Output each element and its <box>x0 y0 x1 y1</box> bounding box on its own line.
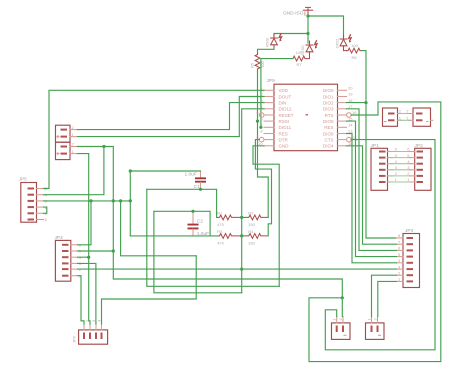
JP9 pin 14 RES <box>324 123 353 131</box>
JP3 pin 6 <box>397 246 414 251</box>
bottom connector A pin 1 <box>332 317 337 333</box>
wire ASSOC LED to R7 <box>307 54 310 59</box>
battery1 pin 1 <box>57 132 78 138</box>
wire branch row to JP3 p5 riser <box>121 201 197 256</box>
wire DOUT net JP9 p2 to battery1 p1 <box>78 97 265 137</box>
battery2 pin 2 <box>61 142 78 147</box>
wire JP9 p11 to JP3 p7 <box>347 146 397 244</box>
junction <box>129 199 132 202</box>
wire R3 row <box>130 235 218 237</box>
JP9 pin 5 RESET (inverted) <box>256 110 293 118</box>
JP9 pin 4 DIO12 <box>260 104 292 112</box>
svg-text:470: 470 <box>217 241 224 246</box>
svg-text:DIO2: DIO2 <box>335 38 340 48</box>
JP9 pin 8 RES <box>260 129 287 137</box>
JP9 pin 20 DIO0 <box>323 86 353 94</box>
wire DIN net JP9 p3 to battery1 p2 <box>78 103 265 130</box>
wire battery2 p2 down to bottom connector A pin 2 <box>78 147 343 317</box>
wire DTR JP9 p9 to C2 top <box>255 140 271 236</box>
wire JP9 p18 stub to node <box>347 102 367 104</box>
wire JP5 p2 to p1 <box>44 207 47 213</box>
JP4 pin 4 <box>62 255 82 260</box>
wire DIO12 net JP9 p4 down through R junctions <box>242 109 264 293</box>
JP2 pin 2 <box>407 171 423 176</box>
bottom connector B pin 1 <box>366 317 371 333</box>
svg-text:DIO4: DIO4 <box>323 144 334 149</box>
JP6 pin 2 <box>85 319 90 339</box>
svg-text:R7: R7 <box>296 62 302 67</box>
jumper right pin 2 <box>406 109 422 114</box>
JP2 pin 1 <box>407 177 423 182</box>
jumper wire pin2 row <box>400 113 411 115</box>
wire JP4 p3 to JP6 p3 <box>78 263 96 324</box>
LED DIO2 <box>340 35 351 48</box>
svg-text:DIO0: DIO0 <box>323 88 334 93</box>
wire DTR net JP4 p2 to JP3 p3 <box>78 268 397 270</box>
jumper wire pin1 row <box>400 119 411 121</box>
JP2 pin 3 <box>407 165 423 170</box>
wire C2 top row <box>154 211 210 236</box>
wire JP9 p17 to JP3 p6 <box>347 109 397 251</box>
wire JP6 p4 loop to branch row <box>102 256 197 324</box>
wire DIO2 LED to R6 <box>344 48 347 51</box>
battery2 pin 1 <box>57 149 78 155</box>
jumper right pin 1 <box>406 116 422 121</box>
JP3 pin 8 <box>397 233 414 238</box>
JP9 pin 6 RSSI <box>260 116 289 124</box>
svg-text:JP9: JP9 <box>267 78 276 84</box>
svg-text:100: 100 <box>296 50 303 55</box>
bottom connector A pin 2 <box>338 317 343 333</box>
JP9 pin 2 DOUT <box>260 92 291 100</box>
wire JP5 p3 to JP4 p6 <box>78 201 92 245</box>
JP9 pin 13 DIO9 <box>323 129 353 137</box>
svg-text:DIO9: DIO9 <box>323 131 334 136</box>
junction <box>240 216 243 219</box>
svg-text:JP4: JP4 <box>55 235 64 241</box>
svg-text:100: 100 <box>351 43 358 48</box>
svg-text:GND: GND <box>279 144 290 149</box>
svg-text:C2: C2 <box>197 218 203 224</box>
wire VDD net JP9 p1 to JP5 p5 <box>44 90 265 188</box>
JP1 pin 3 <box>379 165 398 170</box>
svg-text:RSSI: RSSI <box>279 119 290 124</box>
junction <box>199 188 202 191</box>
JP9 pin 9 DTR (inverted) <box>256 135 288 143</box>
bottom connector B <box>366 323 385 340</box>
wire GND net JP9 p10 to JP6 p4 <box>253 146 279 286</box>
resistor R3 470 <box>217 229 241 246</box>
JP5 pin 1 <box>28 211 48 216</box>
JP9 pin 7 DIO11 <box>260 123 291 131</box>
connector JP2 <box>415 143 432 190</box>
wire C1 net lower loop <box>147 189 279 286</box>
svg-text:RSSI: RSSI <box>265 38 270 47</box>
wire inner ring JP9 p12 CTS net to bottom connector A pin 1 <box>325 140 435 350</box>
JP9 pin 3 DIN <box>260 98 286 106</box>
supply symbol GND-ISO <box>303 7 312 16</box>
svg-text:20: 20 <box>348 86 353 91</box>
JP2 pin 4 <box>407 159 423 164</box>
battery1 pin 2 <box>61 125 78 130</box>
svg-text:JP3: JP3 <box>405 228 414 234</box>
JP3 pin 4 <box>397 258 414 263</box>
wire R7 to JP9 pin 7 net <box>261 59 293 128</box>
JP4 pin 3 <box>62 261 82 266</box>
JP9 pin 18 DIO2 <box>323 98 353 106</box>
wire JP4 p1 to JP6 p1 <box>78 276 85 324</box>
junction <box>191 210 194 213</box>
connector JP9 (XBee module) <box>267 78 338 151</box>
wire JP9 p13 to JP3 p4 <box>347 134 397 263</box>
JP2 pin 6 <box>407 147 423 152</box>
svg-text:330: 330 <box>248 222 255 227</box>
junction <box>112 249 115 252</box>
svg-text:DIO12: DIO12 <box>279 107 293 112</box>
junction <box>306 14 309 17</box>
svg-text:R4: R4 <box>248 229 254 234</box>
JP4 pin 1 <box>62 273 82 278</box>
svg-text:R1: R1 <box>217 210 223 215</box>
JP6 pin 4 <box>96 319 101 339</box>
2-pin jumper right box <box>413 108 433 126</box>
svg-text:RTS: RTS <box>325 113 334 118</box>
svg-text:19: 19 <box>348 92 353 97</box>
wire JP3 p2 to bottom connector B pin 1 <box>372 275 397 316</box>
svg-text:DIO1: DIO1 <box>323 94 334 99</box>
wire C2 net lower loop <box>154 211 242 292</box>
connector JP1 <box>371 143 388 190</box>
svg-text:R6: R6 <box>351 55 357 60</box>
JP1 pin 5 <box>379 153 398 158</box>
capacitor C1 1.0uF <box>185 171 206 190</box>
svg-text:VDD: VDD <box>279 88 289 93</box>
JP6 pin 3 <box>91 319 96 339</box>
capacitor C2 1.0uF <box>188 211 210 237</box>
JP2 pin 5 <box>407 153 423 158</box>
junction <box>112 199 115 202</box>
jumper left pin 1 <box>388 116 402 121</box>
wire GND-ISO to DIO2 LED <box>308 16 344 37</box>
wire battery2 p1 to JP4 p4 to JP6 p2 <box>78 154 91 324</box>
junction on pin7 DIO11 <box>259 126 262 129</box>
wire GND-ISO vertical to ASSOC LED <box>307 16 309 43</box>
JP6 pin 1 <box>79 319 84 339</box>
wire R6 to JP9 pin 18 and JP3 pin 8 <box>362 51 397 238</box>
svg-text:330: 330 <box>248 241 255 246</box>
svg-text:DTR: DTR <box>279 138 289 143</box>
JP5 pin 3 <box>28 199 48 204</box>
JP9 pin 15 DIO5 <box>323 116 353 124</box>
svg-text:DIO11: DIO11 <box>279 125 292 130</box>
resistor R7 <box>291 56 306 61</box>
connector JP6 <box>72 330 108 344</box>
connector JP4 <box>55 235 71 281</box>
JP9 pin 11 DIO4 <box>323 141 353 149</box>
resistor R5 <box>255 53 260 71</box>
svg-text:DIO5: DIO5 <box>323 119 334 124</box>
2-pin connector lower (battery 2) <box>56 142 71 159</box>
JP9 pin 19 DIO1 <box>323 92 353 100</box>
svg-text:R5: R5 <box>249 62 254 68</box>
JP3 pin 3 <box>397 264 414 269</box>
wire JP4 p5 stub join <box>78 250 114 252</box>
svg-text:DIN: DIN <box>279 101 287 106</box>
JP9 pin 17 DIO3 <box>323 104 353 112</box>
JP4 pin 5 <box>62 249 82 254</box>
JP1-JP2 row wires <box>391 152 412 183</box>
JP5 pin 6 <box>28 217 48 222</box>
svg-text:R2: R2 <box>248 210 254 215</box>
svg-text:CTS: CTS <box>325 138 334 143</box>
wire node A horizontal <box>130 170 200 172</box>
svg-text:470: 470 <box>217 222 224 227</box>
svg-text:RES: RES <box>324 125 333 130</box>
LED RSSI <box>271 34 282 47</box>
svg-text:DIO3: DIO3 <box>323 107 334 112</box>
JP3 pin 5 <box>397 252 414 257</box>
JP3 pin 2 <box>397 270 414 275</box>
wire JP5 p4 riser <box>44 147 104 195</box>
junction on pin18 DIO2 <box>364 101 367 104</box>
JP5 pin 5 <box>28 186 48 191</box>
bottom connector A <box>332 323 351 340</box>
JP5 pin 2 <box>28 205 48 210</box>
junction <box>119 199 122 202</box>
resistor R2 330 <box>242 210 268 227</box>
junction <box>240 234 243 237</box>
wire JP4 p4 stub join <box>78 256 89 258</box>
svg-text:JP5: JP5 <box>19 177 28 183</box>
svg-text:14: 14 <box>348 123 353 128</box>
2-pin jumper left box <box>383 108 398 126</box>
wire R5 to JP9 pin 6 net <box>258 70 269 218</box>
svg-text:DOUT: DOUT <box>279 94 292 99</box>
junction <box>129 169 132 172</box>
JP4 pin 2 <box>62 267 82 272</box>
JP1 pin 6 <box>379 147 398 152</box>
junction <box>89 199 92 202</box>
resistor R1 470 <box>217 210 242 227</box>
svg-text:JP2: JP2 <box>415 143 424 149</box>
JP1 pin 4 <box>379 159 398 164</box>
junction <box>102 145 105 148</box>
svg-text:JP6: JP6 <box>72 335 77 343</box>
2-pin connector upper (battery 1) <box>56 125 71 142</box>
svg-text:GND-ISO: GND-ISO <box>283 11 304 17</box>
svg-text:JP1: JP1 <box>371 143 380 149</box>
wire JP3 p1 to bottom connector B pin 2 <box>378 281 397 316</box>
JP1 pin 2 <box>379 171 398 176</box>
svg-text:RESET: RESET <box>279 113 294 118</box>
resistor R4 330 <box>242 229 268 246</box>
connector JP5 <box>19 177 37 223</box>
wire RSSI LED to R5 <box>258 47 275 53</box>
JP1 pin 1 <box>379 177 398 182</box>
JP9 pin 16 RTS (inverted) <box>325 110 358 118</box>
svg-text:DIO2: DIO2 <box>323 101 334 106</box>
junction <box>306 32 309 35</box>
resistor R6 <box>347 48 362 53</box>
wire vertical node A to R3 row <box>129 171 131 236</box>
wire JP9 p15 to JP3 p5 <box>347 121 397 257</box>
JP4 pin 6 <box>62 243 82 248</box>
wire JP5 p3 row <box>44 200 131 202</box>
bottom connector B pin 2 <box>372 317 377 333</box>
LED ASSOC <box>306 41 317 54</box>
JP3 pin 7 <box>397 239 414 244</box>
svg-text:RES: RES <box>279 131 288 136</box>
junction <box>87 256 90 259</box>
connector JP3 <box>403 228 420 288</box>
JP9 pin 12 CTS (inverted) <box>325 135 358 143</box>
junction <box>341 296 344 299</box>
svg-text:1.0uF: 1.0uF <box>185 171 197 177</box>
wire outer ring JP9 p16 RTS net <box>309 102 441 362</box>
svg-text:R3: R3 <box>217 229 223 234</box>
wire C1 bottom row to R1 <box>147 189 217 217</box>
junction on pin6 RSSI <box>256 120 259 123</box>
JP9 pin 1 VDD <box>260 86 288 94</box>
jumper left pin 2 <box>388 109 402 114</box>
wire GND-ISO branch to RSSI LED <box>274 34 308 37</box>
JP5 pin 4 <box>28 192 48 197</box>
junction <box>240 268 243 271</box>
JP9 pin 10 GND <box>258 141 289 149</box>
JP3 pin 1 <box>397 277 414 282</box>
